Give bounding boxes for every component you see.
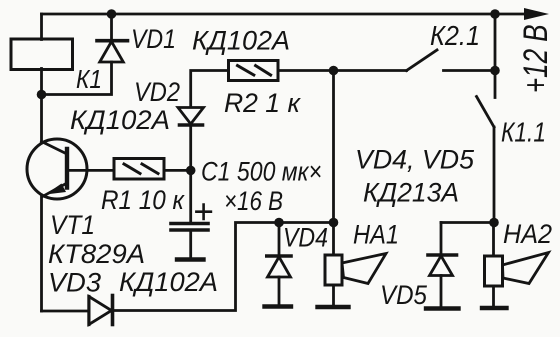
svg-text:НА2: НА2 [503, 219, 552, 249]
wire right riser [494, 14, 497, 71]
node R2/column junction [329, 66, 339, 76]
wire R1 to base node [164, 169, 191, 172]
wire VD1 cathode stem [110, 14, 113, 41]
wire emitter drop [40, 195, 43, 311]
wire base lead [67, 169, 114, 172]
node relay/collector junction [37, 90, 47, 100]
node VD4 top [274, 218, 284, 228]
svg-text:КД102А: КД102А [192, 26, 290, 56]
svg-text:VD2: VD2 [134, 77, 180, 107]
wire bottom emitter to VD3 [42, 310, 89, 313]
svg-text:R2 1 к: R2 1 к [224, 88, 301, 118]
svg-text:КД102А: КД102А [119, 267, 218, 297]
node top rail VD1 [107, 9, 117, 19]
wire to VD5 [441, 221, 494, 224]
svg-text:×16 В: ×16 В [224, 186, 283, 216]
wire VD3 to riser [113, 223, 334, 311]
svg-text:КД102А: КД102А [70, 105, 170, 135]
svg-text:VD5: VD5 [380, 280, 428, 310]
wire K1.1 down [493, 127, 496, 223]
diode VD1 [97, 41, 128, 62]
buzzer HA2 [482, 223, 549, 309]
+12V arrow head [524, 8, 549, 20]
wire top +12V rail [42, 13, 527, 16]
diode VD3 [89, 296, 113, 325]
wire relay bottom lead [40, 69, 43, 95]
node HA2 top [489, 218, 499, 228]
wire relay top drop [40, 14, 43, 40]
node K2.1 right [490, 66, 500, 76]
resistor R2 [229, 61, 279, 81]
wire R2 left / VD2 top [191, 71, 229, 108]
svg-text:R1 10 к: R1 10 к [101, 185, 185, 215]
svg-text:К1: К1 [76, 64, 102, 94]
wire column to HA1 net [332, 71, 335, 223]
svg-text:VD4, VD5: VD4, VD5 [355, 145, 475, 175]
switch K1.1 [477, 71, 496, 128]
switch K2.1 [407, 50, 496, 71]
transistor VT1 [27, 139, 87, 199]
capacitor C1 [171, 170, 211, 259]
svg-text:VD4: VD4 [283, 223, 328, 253]
wire junction to VD1 anode [42, 62, 112, 95]
buzzer HA1 [318, 223, 387, 308]
svg-text:К1.1: К1.1 [501, 117, 546, 148]
svg-text:VD1: VD1 [131, 24, 176, 54]
svg-text:С1 500 мк×: С1 500 мк× [201, 157, 322, 187]
diode VD2 [178, 108, 204, 171]
node base junction [186, 166, 196, 176]
diode VD5 [426, 223, 459, 309]
svg-text:НА1: НА1 [353, 220, 399, 250]
svg-text:VT1: VT1 [50, 210, 95, 240]
svg-text:КТ829А: КТ829А [48, 239, 145, 269]
wire collector drop [40, 95, 43, 144]
node HA1 top [329, 218, 339, 228]
relay coil K1 [11, 39, 73, 70]
resistor R1 [114, 159, 164, 180]
diode VD4 [265, 223, 292, 307]
svg-text:+12 В: +12 В [518, 24, 555, 93]
svg-text:КД213А: КД213А [363, 178, 459, 208]
node top rail right [490, 9, 500, 19]
svg-text:VD3: VD3 [48, 268, 101, 298]
wire R2 right to switch [278, 69, 407, 72]
svg-text:К2.1: К2.1 [430, 20, 480, 51]
